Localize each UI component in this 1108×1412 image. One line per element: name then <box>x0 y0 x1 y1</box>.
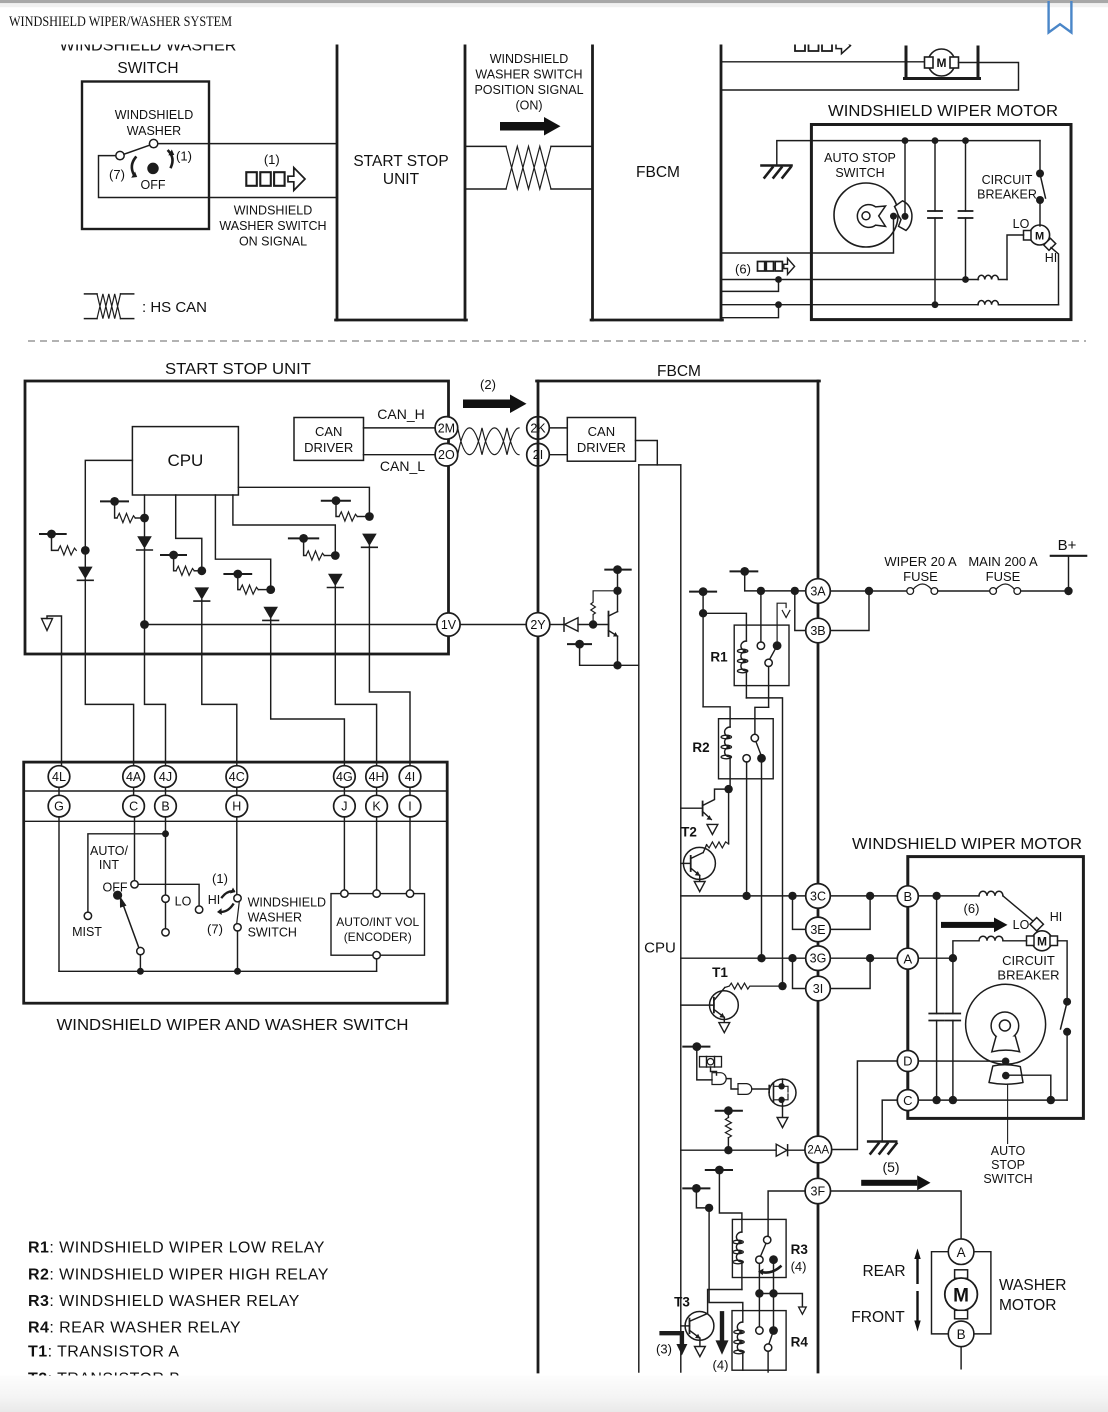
svg-text:WINDSHIELD: WINDSHIELD <box>234 204 312 218</box>
svg-text:START STOP: START STOP <box>353 153 448 170</box>
svg-text:FBCM: FBCM <box>636 164 680 181</box>
svg-text:SWITCH: SWITCH <box>983 1172 1032 1186</box>
svg-text:C: C <box>129 800 138 814</box>
svg-text:K: K <box>372 800 381 814</box>
svg-text:2K: 2K <box>530 421 546 435</box>
svg-text:4L: 4L <box>52 770 66 784</box>
svg-text:M: M <box>937 56 947 70</box>
svg-text:CAN: CAN <box>315 424 342 439</box>
svg-text:: HS CAN: : HS CAN <box>142 299 207 316</box>
svg-text:R3: WINDSHIELD WASHER RELAY: R3: WINDSHIELD WASHER RELAY <box>28 1293 300 1310</box>
svg-text:M: M <box>1037 934 1047 948</box>
svg-text:HI: HI <box>1050 910 1063 924</box>
svg-text:(ON): (ON) <box>515 99 542 113</box>
svg-text:INT: INT <box>99 858 120 872</box>
svg-text:WINDSHIELD WIPER/WASHER SYSTEM: WINDSHIELD WIPER/WASHER SYSTEM <box>9 14 232 30</box>
svg-text:3B: 3B <box>810 624 825 638</box>
svg-text:R2: R2 <box>692 740 709 755</box>
svg-text:(4): (4) <box>713 1358 729 1373</box>
svg-text:MAIN 200 A: MAIN 200 A <box>968 554 1038 569</box>
svg-text:AUTO/: AUTO/ <box>90 844 128 858</box>
svg-text:(3): (3) <box>656 1342 672 1357</box>
svg-text:(2): (2) <box>480 377 496 392</box>
svg-text:2Y: 2Y <box>530 618 546 632</box>
svg-text:WINDSHIELD: WINDSHIELD <box>490 52 568 66</box>
svg-text:R1: WINDSHIELD WIPER LOW RELAY: R1: WINDSHIELD WIPER LOW RELAY <box>28 1240 325 1257</box>
svg-text:T1: TRANSISTOR A: T1: TRANSISTOR A <box>28 1344 180 1361</box>
svg-text:2O: 2O <box>438 448 455 462</box>
svg-text:R3: R3 <box>791 1242 809 1257</box>
svg-text:CAN_H: CAN_H <box>377 406 424 422</box>
svg-text:T1: T1 <box>712 965 728 980</box>
svg-text:CIRCUIT: CIRCUIT <box>982 173 1033 187</box>
svg-text:T2: T2 <box>681 825 697 840</box>
svg-text:4G: 4G <box>336 770 353 784</box>
svg-text:3F: 3F <box>811 1185 826 1199</box>
svg-text:B: B <box>161 800 169 814</box>
svg-text:4H: 4H <box>369 770 385 784</box>
svg-text:DRIVER: DRIVER <box>304 440 353 455</box>
svg-text:3G: 3G <box>810 952 827 966</box>
svg-text:FUSE: FUSE <box>986 569 1021 584</box>
svg-text:M: M <box>953 1286 969 1307</box>
svg-text:DRIVER: DRIVER <box>577 440 626 455</box>
svg-text:(6): (6) <box>964 901 980 916</box>
svg-text:CPU: CPU <box>167 451 203 470</box>
svg-text:CAN_L: CAN_L <box>380 458 425 474</box>
svg-text:WINDSHIELD WIPER MOTOR: WINDSHIELD WIPER MOTOR <box>852 836 1082 853</box>
svg-text:CAN: CAN <box>588 424 615 439</box>
svg-text:3A: 3A <box>810 585 826 599</box>
svg-text:1V: 1V <box>441 618 457 632</box>
svg-text:WINDSHIELD WIPER MOTOR: WINDSHIELD WIPER MOTOR <box>828 103 1058 120</box>
svg-text:STOP: STOP <box>991 1158 1025 1172</box>
svg-text:I: I <box>408 800 411 814</box>
svg-text:WINDSHIELD: WINDSHIELD <box>115 108 193 122</box>
svg-text:G: G <box>54 800 64 814</box>
svg-text:T3: T3 <box>674 1295 690 1310</box>
svg-text:CPU: CPU <box>644 940 676 957</box>
svg-text:CIRCUIT: CIRCUIT <box>1002 953 1055 968</box>
svg-text:FRONT: FRONT <box>851 1309 905 1326</box>
svg-text:REAR: REAR <box>862 1263 905 1280</box>
svg-text:(1): (1) <box>176 149 192 164</box>
svg-text:AUTO STOP: AUTO STOP <box>824 151 896 165</box>
svg-text:BREAKER: BREAKER <box>977 188 1037 202</box>
svg-text:4C: 4C <box>229 770 245 784</box>
svg-text:2I: 2I <box>533 448 543 462</box>
svg-text:(7): (7) <box>207 922 223 937</box>
svg-text:LO: LO <box>1013 918 1030 932</box>
svg-text:WINDSHIELD: WINDSHIELD <box>248 896 326 910</box>
svg-text:SWITCH: SWITCH <box>117 60 178 77</box>
svg-text:FBCM: FBCM <box>657 363 701 380</box>
svg-text:WASHER SWITCH: WASHER SWITCH <box>475 68 582 82</box>
svg-text:HI: HI <box>1045 251 1058 265</box>
svg-text:4I: 4I <box>405 770 415 784</box>
svg-text:D: D <box>903 1054 912 1069</box>
svg-text:SWITCH: SWITCH <box>835 166 884 180</box>
svg-text:R4: REAR WASHER RELAY: R4: REAR WASHER RELAY <box>28 1320 241 1337</box>
svg-text:(7): (7) <box>109 167 125 182</box>
svg-text:(1): (1) <box>212 871 228 886</box>
svg-text:BREAKER: BREAKER <box>997 968 1059 983</box>
svg-text:START STOP UNIT: START STOP UNIT <box>165 361 312 378</box>
svg-text:A: A <box>903 951 912 966</box>
svg-text:MOTOR: MOTOR <box>999 1297 1056 1314</box>
svg-text:(6): (6) <box>735 262 751 277</box>
svg-text:M: M <box>1035 231 1044 243</box>
svg-text:B+: B+ <box>1058 537 1077 554</box>
svg-text:HI: HI <box>208 893 221 907</box>
svg-text:(5): (5) <box>882 1159 899 1175</box>
svg-text:LO: LO <box>175 895 192 909</box>
svg-text:WASHER SWITCH: WASHER SWITCH <box>219 219 326 233</box>
svg-text:AUTO/INT VOL: AUTO/INT VOL <box>336 915 419 929</box>
svg-text:3I: 3I <box>813 982 823 996</box>
svg-text:R1: R1 <box>710 650 728 665</box>
svg-text:R2: WINDSHIELD WIPER HIGH RELA: R2: WINDSHIELD WIPER HIGH RELAY <box>28 1267 329 1284</box>
svg-text:2M: 2M <box>438 421 455 435</box>
svg-text:(4): (4) <box>791 1259 807 1274</box>
svg-text:3E: 3E <box>810 923 825 937</box>
svg-text:J: J <box>341 800 347 814</box>
svg-text:(ENCODER): (ENCODER) <box>344 930 412 944</box>
svg-text:UNIT: UNIT <box>383 171 420 188</box>
svg-text:(1): (1) <box>264 152 280 167</box>
svg-text:C: C <box>903 1093 912 1108</box>
svg-text:B: B <box>957 1327 966 1342</box>
svg-text:OFF: OFF <box>141 178 166 192</box>
svg-text:2AA: 2AA <box>807 1145 829 1157</box>
svg-text:AUTO: AUTO <box>991 1144 1026 1158</box>
svg-text:WINDSHIELD WIPER AND WASHER SW: WINDSHIELD WIPER AND WASHER SWITCH <box>57 1017 409 1034</box>
svg-text:WASHER: WASHER <box>127 124 181 138</box>
svg-text:MIST: MIST <box>72 925 102 939</box>
svg-text:WASHER: WASHER <box>248 911 302 925</box>
svg-text:OFF: OFF <box>103 881 128 895</box>
svg-text:LO: LO <box>1013 217 1030 231</box>
svg-text:B: B <box>903 889 912 904</box>
svg-text:3C: 3C <box>810 889 826 903</box>
svg-text:H: H <box>232 800 241 814</box>
svg-text:WASHER: WASHER <box>999 1277 1066 1294</box>
svg-text:SWITCH: SWITCH <box>248 926 297 940</box>
svg-text:R4: R4 <box>791 1335 809 1350</box>
svg-text:4J: 4J <box>159 770 172 784</box>
svg-text:FUSE: FUSE <box>903 569 938 584</box>
svg-text:WIPER 20 A: WIPER 20 A <box>884 554 957 569</box>
svg-text:A: A <box>957 1245 966 1260</box>
svg-text:4A: 4A <box>126 770 142 784</box>
svg-text:ON SIGNAL: ON SIGNAL <box>239 235 307 249</box>
svg-text:POSITION SIGNAL: POSITION SIGNAL <box>474 83 583 97</box>
